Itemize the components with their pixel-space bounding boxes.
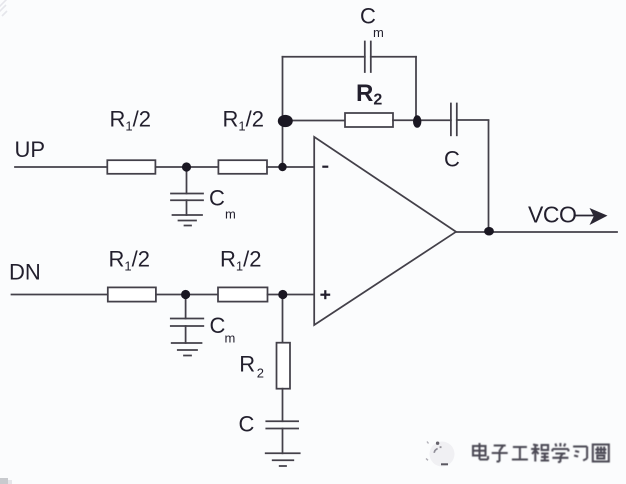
svg-text:C: C [444,147,460,172]
svg-text:m: m [373,25,384,40]
svg-text:C: C [210,313,226,338]
svg-text:m: m [225,207,236,222]
svg-text:C: C [239,412,255,437]
svg-text:UP: UP [15,137,46,162]
svg-text:2: 2 [257,366,264,381]
svg-text:R: R [239,351,255,376]
svg-text:C: C [209,186,225,211]
svg-text:m: m [225,331,236,346]
svg-text:VCO: VCO [528,201,576,227]
svg-text:DN: DN [9,260,41,285]
